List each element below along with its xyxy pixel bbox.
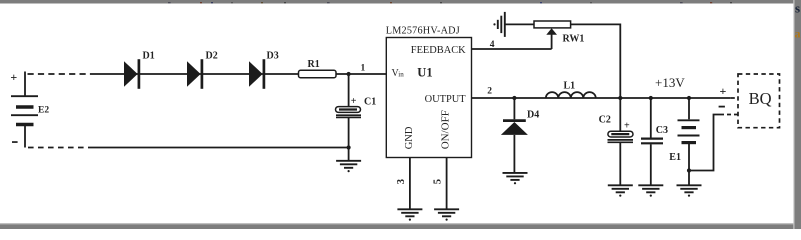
svg-text:GND: GND: [404, 126, 415, 149]
wire bottom rail solid to C1 ground node: [90, 147, 349, 149]
svg-text:D1: D1: [143, 51, 155, 62]
wire top rail solid to U1 pin 1: [96, 73, 386, 75]
svg-text:E2: E2: [38, 106, 49, 116]
svg-text:FEEDBACK: FEEDBACK: [411, 45, 466, 56]
inductor L1: [546, 92, 596, 98]
wire bottom rail dashed from battery: [28, 147, 90, 149]
wire dashed into BQ plus: [731, 97, 738, 99]
svg-text:C1: C1: [364, 97, 376, 108]
svg-text:R1: R1: [308, 59, 320, 70]
svg-text:2: 2: [487, 87, 492, 97]
svg-text:D3: D3: [267, 51, 279, 62]
diode D4: [501, 98, 539, 173]
svg-text:4: 4: [490, 40, 495, 50]
battery E1: [678, 98, 700, 171]
wire down to ground: [348, 148, 350, 161]
svg-text:U1: U1: [417, 66, 432, 80]
diode D2: [187, 51, 218, 89]
svg-text:D2: D2: [206, 51, 218, 62]
node C3 junction: [649, 96, 653, 100]
potentiometer RW1: [534, 21, 584, 49]
svg-text:+: +: [10, 70, 17, 84]
bottom gray strip: [0, 223, 801, 224]
svg-text:3: 3: [396, 179, 407, 184]
wire BQ minus return: [689, 115, 720, 171]
wire ground to RW1: [505, 23, 534, 25]
svg-text:s: s: [795, 1, 800, 16]
svg-text:5: 5: [433, 179, 444, 184]
svg-text:LM2576HV-ADJ: LM2576HV-ADJ: [386, 26, 460, 37]
svg-text:a: a: [795, 27, 801, 41]
wire top rail dashed from battery: [28, 73, 97, 75]
ground under E1: [677, 185, 702, 196]
wire E1 to ground: [688, 171, 690, 186]
svg-text:BQ: BQ: [749, 89, 772, 108]
ground at potentiometer (rotated): [493, 12, 504, 37]
capacitor C3: [641, 98, 668, 185]
svg-text:+: +: [720, 84, 727, 98]
svg-text:E1: E1: [669, 152, 681, 163]
node C2/RW1 junction: [618, 96, 622, 100]
diode D1: [124, 51, 155, 89]
battery E2: [11, 72, 38, 148]
svg-text:C2: C2: [599, 114, 611, 125]
wire RW1 right to output node: [571, 24, 621, 98]
wire U1 pin 5 stub: [446, 158, 448, 210]
diode D3: [249, 51, 279, 89]
svg-text:RW1: RW1: [563, 34, 585, 45]
ground under C2: [608, 185, 633, 196]
svg-text:D4: D4: [527, 109, 539, 120]
svg-text:+: +: [624, 121, 630, 132]
svg-text:C3: C3: [656, 125, 668, 136]
wire U1 pin 3 stub: [409, 158, 411, 210]
node - of E2: [12, 141, 18, 143]
top gray strip: [0, 0, 801, 4]
svg-text:ON/OFF: ON/OFF: [440, 110, 452, 149]
svg-text:in: in: [398, 71, 404, 79]
node 1 junction: [347, 72, 351, 76]
svg-text:OUTPUT: OUTPUT: [425, 94, 467, 105]
svg-text:+13V: +13V: [655, 75, 685, 90]
wire output rail: [472, 97, 731, 99]
svg-text:L1: L1: [564, 81, 576, 92]
node - of BQ: [719, 106, 725, 108]
node +13V: [687, 96, 691, 100]
ground under pin 3: [397, 209, 422, 220]
ground under pin 5: [434, 209, 459, 220]
resistor R1: [299, 59, 337, 78]
svg-text:+: +: [351, 96, 357, 107]
load BQ dashed box: [738, 74, 780, 128]
ground under C1: [336, 161, 361, 172]
op-amp regulator U1 box: [386, 26, 472, 158]
node E1 bottom junction: [687, 168, 691, 172]
ground under C3: [638, 185, 663, 196]
wire dashed into BQ minus: [720, 114, 738, 116]
capacitor C1: [336, 74, 377, 148]
ground under D4: [503, 173, 528, 184]
svg-text:1: 1: [361, 63, 366, 73]
node D4 junction: [512, 96, 516, 100]
wire U1 pin 4 feedback: [472, 48, 552, 50]
node C1/bottom-rail junction: [347, 145, 351, 149]
capacitor C2: [599, 98, 633, 185]
right gray strip: [795, 0, 801, 229]
